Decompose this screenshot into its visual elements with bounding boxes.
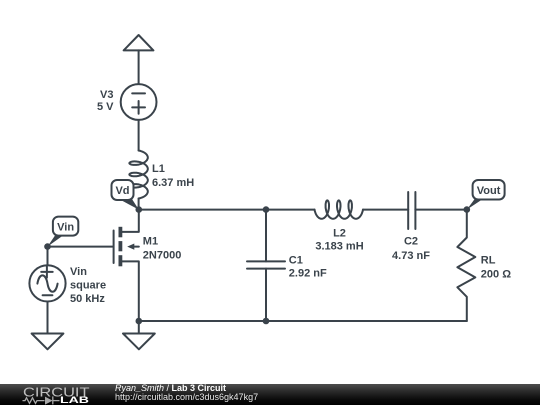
ground under Vin <box>32 334 64 350</box>
V3 minus sign <box>132 92 145 94</box>
svg-text:L1: L1 <box>152 163 165 175</box>
wire Vin node to source <box>47 247 49 266</box>
junction node Vin <box>44 243 51 250</box>
footer bar <box>0 384 540 405</box>
inductor L2 <box>315 200 364 218</box>
mosfet M1 source wire <box>121 261 139 333</box>
svg-text:2.92 nF: 2.92 nF <box>289 268 327 280</box>
wire L2 to C2 <box>363 209 408 211</box>
wire flag to V3 <box>138 50 140 84</box>
svg-text:4.73 nF: 4.73 nF <box>392 250 430 262</box>
svg-text:LAB: LAB <box>60 395 89 405</box>
callout pointer Vd <box>119 198 139 210</box>
bottom rail wire <box>139 320 467 322</box>
power flag VDD <box>124 35 154 50</box>
svg-text:50 kHz: 50 kHz <box>70 293 105 305</box>
circuitlab logo resistor-diode glyph <box>23 396 60 404</box>
wire C2 to node Vout <box>415 209 466 211</box>
mosfet M1 gate bar <box>113 231 115 264</box>
mosfet M1 channel bars <box>119 227 123 266</box>
wire V3 to L1 <box>138 120 140 151</box>
callout box Vin <box>53 217 78 236</box>
mosfet M1 arrowhead <box>127 244 134 250</box>
svg-text:V3: V3 <box>100 89 113 101</box>
svg-text:L2: L2 <box>333 227 346 239</box>
svg-text:C2: C2 <box>404 235 418 247</box>
V3 plus sign <box>132 101 145 114</box>
svg-text:6.37 mH: 6.37 mH <box>152 177 194 189</box>
callout pointer Vin <box>48 236 64 247</box>
mosfet M1 body arrow line <box>133 246 139 248</box>
svg-text:200 Ω: 200 Ω <box>481 268 511 280</box>
mosfet M1 drain wire <box>121 210 139 232</box>
inductor L1 <box>129 151 147 199</box>
junction node ground rail <box>136 318 143 325</box>
capacitor C1 branch wires <box>265 210 267 321</box>
resistor RL <box>457 210 475 321</box>
ground under M1 <box>123 334 155 350</box>
capacitor C1 plates <box>247 261 285 268</box>
capacitor C2 plates <box>408 192 415 229</box>
svg-text:3.183 mH: 3.183 mH <box>315 241 363 253</box>
svg-text:5 V: 5 V <box>97 101 114 113</box>
svg-text:square: square <box>70 280 106 292</box>
junction node C1 top <box>263 206 270 213</box>
voltage source V3 <box>121 84 157 120</box>
svg-text:Vin: Vin <box>70 266 87 278</box>
footer url <box>115 392 258 402</box>
callout pointer Vout <box>467 199 483 209</box>
junction node Vd <box>136 206 143 213</box>
callout box Vd <box>112 180 134 200</box>
wire L1 to node Vd <box>138 199 140 210</box>
source Vin circle <box>29 265 65 301</box>
svg-text:2N7000: 2N7000 <box>143 250 182 262</box>
svg-text:Vin: Vin <box>57 222 74 234</box>
Vin minus sign <box>43 294 53 296</box>
svg-text:M1: M1 <box>143 236 158 248</box>
Vin plus sign <box>41 266 53 277</box>
wire Vin to ground <box>47 302 49 334</box>
junction node C1 bottom <box>263 318 270 325</box>
svg-text:Vout: Vout <box>477 185 501 197</box>
svg-text:Vd: Vd <box>115 185 129 197</box>
junction node Vout <box>464 206 471 213</box>
wire node Vd to L2 <box>139 209 315 211</box>
svg-text:RL: RL <box>481 255 496 267</box>
svg-text:C1: C1 <box>289 255 303 267</box>
callout box Vout <box>473 180 505 200</box>
mosfet M1 gate wire <box>48 246 113 248</box>
logo diode triangle <box>45 397 53 405</box>
Vin sine wave <box>37 275 57 291</box>
footer title <box>115 383 226 393</box>
